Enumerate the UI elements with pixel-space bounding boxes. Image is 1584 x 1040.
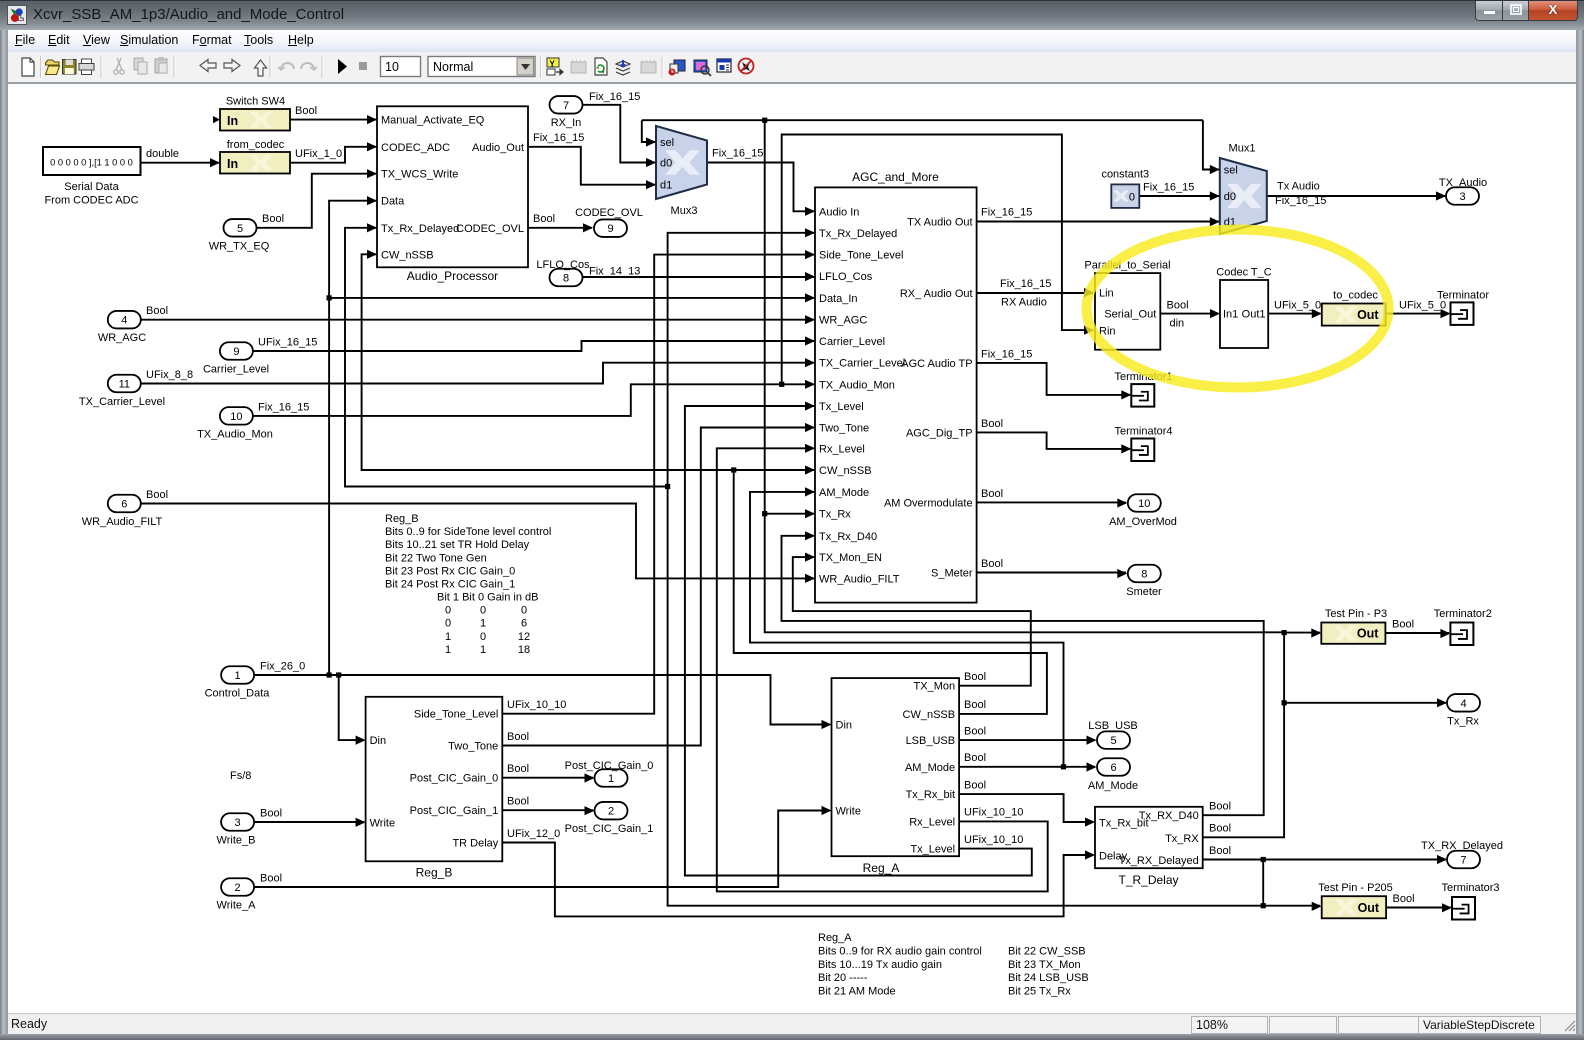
- svg-text:UFix_8_8: UFix_8_8: [146, 369, 193, 381]
- svg-text:Bool: Bool: [260, 808, 282, 820]
- svg-text:Tx_Level: Tx_Level: [910, 844, 955, 856]
- source block Serial Data: [43, 147, 141, 207]
- svg-text:Lin: Lin: [1099, 288, 1114, 300]
- svg-text:Bool: Bool: [964, 780, 986, 792]
- svg-text:Y: Y: [550, 60, 556, 69]
- svg-text:UFix_10_10: UFix_10_10: [964, 807, 1023, 819]
- svg-text:0: 0: [445, 618, 451, 630]
- svg-text:to_codec: to_codec: [1333, 290, 1378, 302]
- wire Mux1 sel drop: [1203, 120, 1219, 169]
- svg-text:TX_WCS_Write: TX_WCS_Write: [381, 169, 458, 181]
- port oval Control_Data 1: [205, 666, 271, 699]
- svg-text:7: 7: [1460, 855, 1466, 867]
- svg-text:2: 2: [608, 806, 614, 818]
- svg-text:sel: sel: [660, 137, 674, 149]
- svg-text:AGC_and_More: AGC_and_More: [852, 170, 939, 184]
- port oval TX_RX_Delayed 7: [1421, 840, 1503, 868]
- svg-text:Bool: Bool: [507, 796, 529, 808]
- svg-text:RX Audio: RX Audio: [1001, 297, 1047, 309]
- wire Side_Tone_Level return: [502, 255, 814, 714]
- svg-text:AM_OverMod: AM_OverMod: [1109, 516, 1177, 528]
- svg-text:Bool: Bool: [981, 558, 1003, 570]
- svg-text:Tx_RX: Tx_RX: [1165, 833, 1199, 845]
- svg-text:Write_B: Write_B: [217, 835, 256, 847]
- svg-text:AM_Mode: AM_Mode: [819, 487, 869, 499]
- wire WR_TX_EQ to TX_WCS_Write: [257, 174, 377, 228]
- svg-text:Bool: Bool: [262, 213, 284, 225]
- wire LFLO_Cos to AGC: [583, 276, 814, 278]
- port oval AM_OverMod 10: [1109, 494, 1177, 528]
- svg-text:Bool: Bool: [964, 752, 986, 764]
- wire Test Pin P3 to Terminator2: [1385, 632, 1449, 634]
- svg-text:Bool: Bool: [1392, 619, 1414, 631]
- svg-text:CW_nSSB: CW_nSSB: [819, 465, 872, 477]
- svg-text:4: 4: [1460, 698, 1466, 710]
- svg-text:TX_Carrier_Level: TX_Carrier_Level: [79, 396, 165, 408]
- constant block constant3: [1101, 169, 1149, 208]
- wire Tx_RX_Delayed riser down: [1262, 860, 1264, 906]
- wire Audio_Out to Mux3 d1: [528, 147, 655, 185]
- svg-text:11: 11: [119, 379, 130, 391]
- svg-text:Serial_Out: Serial_Out: [1104, 309, 1156, 321]
- svg-text:In: In: [227, 157, 238, 171]
- svg-text:Fix_16_15: Fix_16_15: [981, 207, 1032, 219]
- svg-text:Terminator2: Terminator2: [1434, 608, 1492, 620]
- svg-text:Tx_Rx: Tx_Rx: [1447, 716, 1479, 728]
- terminator Terminator: [1437, 290, 1489, 325]
- annotation Reg_B description: [385, 513, 551, 656]
- svg-text:Write: Write: [836, 806, 861, 818]
- port oval WR_TX_EQ 5: [209, 219, 270, 252]
- svg-text:TX_RX_Delayed: TX_RX_Delayed: [1421, 840, 1503, 852]
- port oval TX_Audio 3: [1439, 177, 1487, 205]
- svg-text:1: 1: [608, 773, 614, 785]
- svg-text:1: 1: [445, 644, 451, 656]
- svg-text:Bit 21 AM Mode: Bit 21 AM Mode: [818, 986, 896, 998]
- wire Tx_Rx_bit to T_R_Delay: [959, 794, 1093, 822]
- svg-text:LSB_USB: LSB_USB: [906, 735, 956, 747]
- svg-text:WR_Audio_FILT: WR_Audio_FILT: [819, 573, 900, 585]
- svg-text:RX_ Audio Out: RX_ Audio Out: [900, 288, 973, 300]
- svg-text:d1: d1: [660, 180, 672, 192]
- port oval Smeter 8: [1126, 565, 1162, 598]
- wire Tx_RX_Delayed to Test Pin P205: [1263, 905, 1320, 907]
- wire TX_Carrier_Level to AGC: [141, 363, 815, 384]
- svg-text:Mux1: Mux1: [1229, 143, 1256, 155]
- gateway from_codec In: [220, 139, 290, 174]
- svg-text:Bool: Bool: [507, 763, 529, 775]
- svg-text:Normal: Normal: [433, 60, 473, 74]
- wire Tx_RX_Delayed row left: [668, 233, 1264, 906]
- svg-text:Tx_Level: Tx_Level: [819, 401, 864, 413]
- wire WR_AGC to AGC: [141, 319, 815, 321]
- wire sel row: [642, 119, 1203, 121]
- svg-text:Bit 24 LSB_USB: Bit 24 LSB_USB: [1008, 972, 1089, 984]
- port oval WR_Audio_FILT 6: [82, 495, 163, 528]
- gateway Switch SW4 In: [220, 96, 290, 131]
- svg-text:Test Pin - P3: Test Pin - P3: [1325, 608, 1387, 620]
- svg-text:Data: Data: [381, 196, 405, 208]
- wire Tx_RX_D40 return: [782, 536, 1264, 815]
- svg-text:Tx_Rx_Delayed: Tx_Rx_Delayed: [381, 223, 459, 235]
- wire Mux3 out to AGC Audio In: [707, 163, 814, 212]
- svg-text:Bool: Bool: [1209, 845, 1231, 857]
- svg-text:TX_Audio_Mon: TX_Audio_Mon: [197, 429, 273, 441]
- wire AM_Mode out: [959, 766, 1095, 768]
- wire TX_Mon to AGC TX_Mon_EN: [793, 557, 1031, 686]
- wire Mux1 out to TX_Audio: [1267, 195, 1445, 197]
- wire RX_In to Mux3 d0: [583, 105, 656, 163]
- svg-text:Tx_RX_D40: Tx_RX_D40: [1139, 810, 1199, 822]
- wire Tx_Level return: [685, 406, 1032, 876]
- svg-text:2: 2: [235, 882, 241, 894]
- svg-text:Fs/8: Fs/8: [230, 770, 251, 782]
- svg-text:CW_nSSB: CW_nSSB: [903, 709, 956, 721]
- wire Tx_Rx to oval 4: [1284, 702, 1446, 704]
- svg-text:Bool: Bool: [533, 213, 555, 225]
- svg-text:0 0 0 0 0 ],[1 1 0 0 0: 0 0 0 0 0 ],[1 1 0 0 0: [50, 158, 133, 168]
- wire T_R_Delay Tx_RX to risers: [1203, 633, 1284, 838]
- block Codec T_C: [1220, 280, 1268, 348]
- svg-text:Side_Tone_Level: Side_Tone_Level: [414, 709, 498, 721]
- svg-text:Parallel_to_Serial: Parallel_to_Serial: [1084, 260, 1170, 272]
- wire CW_nSSB row to AGC: [734, 469, 814, 471]
- svg-text:0: 0: [445, 605, 451, 617]
- svg-text:Fix_16_15: Fix_16_15: [981, 348, 1032, 360]
- svg-text:Bool: Bool: [981, 418, 1003, 430]
- mux Mux1: [1220, 143, 1267, 235]
- svg-text:Manual_Activate_EQ: Manual_Activate_EQ: [381, 115, 485, 127]
- svg-text:0: 0: [1129, 192, 1135, 204]
- svg-text:Bool: Bool: [1209, 801, 1231, 813]
- svg-text:Out: Out: [1357, 308, 1379, 322]
- wire SwitchSW4 to Manual_Activate_EQ: [290, 119, 376, 121]
- wire Post_CIC_Gain_1 out: [502, 809, 593, 811]
- wire to_codec to Terminator: [1386, 313, 1449, 315]
- svg-text:Bit 24 Post Rx CIC Gain_1: Bit 24 Post Rx CIC Gain_1: [385, 579, 515, 591]
- svg-text:AM_Mode: AM_Mode: [1088, 780, 1138, 792]
- wire Write_A to Reg_A Write: [255, 811, 830, 888]
- wire Serial_Out to Codec In1: [1160, 313, 1218, 315]
- wire AGC_Dig_TP to Terminator4: [977, 432, 1130, 449]
- svg-text:T_R_Delay: T_R_Delay: [1118, 873, 1178, 887]
- svg-text:TX Audio Out: TX Audio Out: [907, 217, 972, 229]
- svg-text:8: 8: [563, 273, 569, 285]
- svg-text:Tx_Rx: Tx_Rx: [819, 509, 851, 521]
- svg-text:Bit 22 Two Tone Gen: Bit 22 Two Tone Gen: [385, 552, 487, 564]
- svg-text:Tx_Rx_D40: Tx_Rx_D40: [819, 531, 877, 543]
- svg-text:RX_In: RX_In: [551, 117, 582, 129]
- wire CW_nSSB row to AP: [362, 254, 734, 470]
- svg-text:Out: Out: [1357, 627, 1379, 641]
- svg-text:4: 4: [121, 315, 127, 327]
- svg-text:Reg_B: Reg_B: [416, 866, 453, 880]
- svg-text:Fix_16_15: Fix_16_15: [1275, 195, 1326, 207]
- svg-text:1: 1: [235, 670, 241, 682]
- svg-text:Tx_Rx_Delayed: Tx_Rx_Delayed: [819, 228, 897, 240]
- gateway Test Pin - P3 Out: [1321, 608, 1387, 644]
- wire Rx_Level return: [717, 448, 1048, 891]
- svg-text:Fix_16_15: Fix_16_15: [258, 401, 309, 413]
- svg-text:TR Delay: TR Delay: [452, 838, 498, 850]
- wire Codec Out1 to to_codec: [1268, 313, 1320, 315]
- block Parallel_to_Serial: [1095, 273, 1160, 350]
- svg-text:TX_Mon: TX_Mon: [914, 681, 956, 693]
- port oval Write_A 2: [217, 878, 257, 911]
- svg-text:Audio_Out: Audio_Out: [472, 142, 524, 154]
- svg-text:Tx_Rx_bit: Tx_Rx_bit: [906, 789, 956, 801]
- svg-text:9: 9: [607, 223, 613, 235]
- gateway Test Pin - P205 Out: [1318, 882, 1393, 918]
- wire AGC Audio TP to Terminator1: [977, 363, 1130, 395]
- svg-text:From CODEC ADC: From CODEC ADC: [44, 195, 138, 207]
- svg-text:6: 6: [1110, 762, 1116, 774]
- svg-text:Bool: Bool: [146, 489, 168, 501]
- wire TR Delay to Delay input: [502, 843, 1093, 917]
- wire from_codec to CODEC_ADC: [290, 147, 376, 163]
- svg-text:AGC_Dig_TP: AGC_Dig_TP: [906, 427, 973, 439]
- port oval Post_CIC_Gain_0 1: [565, 760, 654, 787]
- svg-text:Fix_16_15: Fix_16_15: [1000, 278, 1051, 290]
- svg-text:Fix_16_15: Fix_16_15: [712, 148, 763, 160]
- wire RX Audio Out to Lin: [977, 292, 1093, 294]
- svg-text:5: 5: [237, 223, 243, 235]
- svg-text:Bits 10..21 set TR Hold Delay: Bits 10..21 set TR Hold Delay: [385, 539, 530, 551]
- svg-text:9: 9: [233, 346, 239, 358]
- wire Test Pin P205 to Terminator3: [1386, 907, 1450, 909]
- svg-text:Reg_A: Reg_A: [863, 861, 900, 875]
- port oval RX_In 7: [550, 96, 583, 129]
- wire Two_Tone return: [502, 428, 814, 746]
- wire Write_B to Reg_B Write: [255, 821, 364, 823]
- svg-text:AM_Mode: AM_Mode: [905, 762, 955, 774]
- port oval LSB_USB 5: [1088, 720, 1138, 749]
- port oval TX_Carrier_Level 11: [79, 375, 165, 408]
- svg-text:sel: sel: [1224, 165, 1238, 177]
- svg-text:Write: Write: [370, 817, 395, 829]
- svg-text:Post_CIC_Gain_0: Post_CIC_Gain_0: [565, 760, 654, 772]
- svg-text:1: 1: [480, 644, 486, 656]
- wire S_Meter to Smeter: [977, 572, 1126, 574]
- svg-text:from_codec: from_codec: [227, 139, 285, 151]
- svg-text:0: 0: [480, 605, 486, 617]
- svg-text:d0: d0: [660, 158, 672, 170]
- svg-text:10: 10: [385, 60, 399, 74]
- svg-text:Bool: Bool: [964, 699, 986, 711]
- svg-text:Bool: Bool: [1209, 823, 1231, 835]
- mux Mux3: [656, 126, 707, 217]
- svg-text:TX_Audio_Mon: TX_Audio_Mon: [819, 379, 895, 391]
- wire CODEC_OVL to CODEC_OVL port: [528, 227, 592, 229]
- block T_R_Delay: [1095, 807, 1203, 887]
- wire TX_Audio_Mon riser to Rin: [782, 135, 1093, 385]
- gateway to_codec Out: [1322, 290, 1386, 326]
- svg-text:UFix_10_10: UFix_10_10: [507, 699, 566, 711]
- svg-text:LFLO_Cos: LFLO_Cos: [819, 271, 873, 283]
- svg-text:Carrier_Level: Carrier_Level: [203, 364, 269, 376]
- svg-text:CODEC_ADC: CODEC_ADC: [381, 142, 450, 154]
- svg-text:Tx_RX_Delayed: Tx_RX_Delayed: [1119, 855, 1199, 867]
- svg-text:Post_CIC_Gain_1: Post_CIC_Gain_1: [565, 823, 654, 835]
- svg-text:In1: In1: [1223, 309, 1238, 321]
- port oval Tx_Rx 4: [1447, 694, 1480, 727]
- svg-text:UFix_5_0: UFix_5_0: [1274, 300, 1321, 312]
- svg-text:WR_AGC: WR_AGC: [819, 315, 867, 327]
- port oval AM_Mode 6: [1088, 758, 1138, 792]
- svg-text:Serial Data: Serial Data: [64, 181, 119, 193]
- svg-text:Bool: Bool: [964, 671, 986, 683]
- terminator Terminator1: [1114, 371, 1172, 407]
- svg-text:Control_Data: Control_Data: [205, 688, 271, 700]
- svg-text:Bool: Bool: [260, 873, 282, 885]
- port oval CODEC_OVL 9: [575, 207, 643, 237]
- wire AM Overmodulate to AM_OverMod: [977, 501, 1126, 503]
- svg-text:UFix_5_0: UFix_5_0: [1399, 300, 1446, 312]
- svg-text:5: 5: [1110, 735, 1116, 747]
- port oval Post_CIC_Gain_1 2: [565, 802, 654, 835]
- block Audio_Processor: [377, 106, 528, 283]
- port oval WR_AGC 4: [98, 311, 146, 344]
- svg-text:AM Overmodulate: AM Overmodulate: [884, 497, 973, 509]
- svg-text:Bit 22 CW_SSB: Bit 22 CW_SSB: [1008, 945, 1086, 957]
- svg-text:Post_CIC_Gain_0: Post_CIC_Gain_0: [410, 773, 499, 785]
- svg-text:WR_AGC: WR_AGC: [98, 332, 146, 344]
- svg-text:double: double: [146, 148, 179, 160]
- wire Control_Data to Reg_B Din: [339, 675, 364, 740]
- svg-text:0: 0: [521, 605, 527, 617]
- port oval Carrier_Level 9: [203, 342, 269, 375]
- svg-text:UFix_16_15: UFix_16_15: [258, 337, 317, 349]
- terminator Terminator2: [1434, 608, 1492, 645]
- svg-text:0: 0: [480, 631, 486, 643]
- wire CW_nSSB distribution: [734, 470, 1047, 714]
- svg-text:Smeter: Smeter: [1126, 586, 1162, 598]
- svg-text:7: 7: [563, 100, 569, 112]
- svg-text:CODEC_OVL: CODEC_OVL: [575, 207, 643, 219]
- svg-text:Data_In: Data_In: [819, 293, 858, 305]
- wire Tx_RX riser to Test Pin P3: [1284, 632, 1320, 634]
- port oval LFLO_Cos 8: [536, 259, 590, 286]
- svg-text:Tx Audio: Tx Audio: [1277, 181, 1320, 193]
- wire constant3 to Mux1 d0: [1139, 195, 1218, 197]
- annotation Reg_A description: [818, 932, 1089, 998]
- highlight ellipse: [1087, 230, 1389, 388]
- svg-text:Switch SW4: Switch SW4: [226, 96, 285, 108]
- svg-text:Bool: Bool: [507, 731, 529, 743]
- svg-text:Out: Out: [1358, 901, 1380, 915]
- svg-text:Codec T_C: Codec T_C: [1216, 266, 1271, 278]
- svg-text:Rx_Level: Rx_Level: [819, 443, 865, 455]
- svg-text:In: In: [227, 114, 238, 128]
- wire Control_Data to AP Data: [329, 201, 376, 675]
- wire Mux3 sel drop: [642, 120, 655, 142]
- svg-text:Fix_16_15: Fix_16_15: [533, 132, 584, 144]
- wire Tx_Rx_Delayed branch to AP: [345, 228, 668, 487]
- svg-text:Fix_16_15: Fix_16_15: [1143, 182, 1194, 194]
- wire AGC TX Audio Out to Mux1 d1: [977, 221, 1219, 223]
- svg-text:Side_Tone_Level: Side_Tone_Level: [819, 250, 903, 262]
- wire Tx_RX row to vertical A: [765, 120, 1284, 632]
- svg-text:WR_TX_EQ: WR_TX_EQ: [209, 241, 270, 253]
- svg-text:Bit 23 Post Rx CIC Gain_0: Bit 23 Post Rx CIC Gain_0: [385, 565, 515, 577]
- wire LSB_USB out: [959, 739, 1095, 741]
- block AGC_and_More: [815, 170, 977, 603]
- svg-text:6: 6: [121, 499, 127, 511]
- svg-text:Audio In: Audio In: [819, 206, 859, 218]
- svg-text:CW_nSSB: CW_nSSB: [381, 249, 434, 261]
- wire Control_Data to AGC Data_In: [329, 297, 814, 299]
- svg-text:10: 10: [230, 411, 242, 423]
- terminator Terminator4: [1114, 426, 1172, 462]
- svg-text:Write_A: Write_A: [217, 900, 257, 912]
- svg-text:Audio_Processor: Audio_Processor: [407, 269, 498, 283]
- wire Carrier_Level to AGC: [253, 341, 814, 351]
- svg-text:Out1: Out1: [1242, 309, 1266, 321]
- svg-text:Test Pin - P205: Test Pin - P205: [1318, 882, 1393, 894]
- svg-text:Reg_A: Reg_A: [818, 932, 852, 944]
- wire AM_Mode riser to AGC: [750, 492, 1064, 767]
- svg-text:Bool: Bool: [295, 105, 317, 117]
- svg-text:constant3: constant3: [1101, 169, 1149, 181]
- svg-text:UFix_1_0: UFix_1_0: [295, 148, 342, 160]
- svg-text:Mux3: Mux3: [671, 205, 698, 217]
- svg-text:18: 18: [518, 644, 530, 656]
- svg-text:1: 1: [445, 631, 451, 643]
- svg-text:Post_CIC_Gain_1: Post_CIC_Gain_1: [410, 805, 499, 817]
- wire Tx_Rx into AGC: [765, 513, 814, 515]
- svg-text:d0: d0: [1224, 191, 1236, 203]
- svg-text:Bool: Bool: [1167, 300, 1189, 312]
- svg-text:LFLO_Cos: LFLO_Cos: [536, 259, 590, 271]
- svg-text:Bit 25 Tx_Rx: Bit 25 Tx_Rx: [1008, 986, 1071, 998]
- svg-text:3: 3: [1459, 191, 1465, 203]
- svg-text:Bool: Bool: [146, 305, 168, 317]
- arrows and junction dots: [146, 91, 1452, 912]
- wire Control_Data trunk: [255, 675, 830, 725]
- svg-text:WR_Audio_FILT: WR_Audio_FILT: [82, 516, 163, 528]
- svg-text:Fix_16_15: Fix_16_15: [589, 91, 640, 103]
- svg-text:Bit 23 TX_Mon: Bit 23 TX_Mon: [1008, 959, 1081, 971]
- wire WR_Audio_FILT to AGC: [141, 504, 815, 579]
- svg-text:Fix_14_13: Fix_14_13: [589, 266, 640, 278]
- svg-text:Reg_B: Reg_B: [385, 513, 419, 525]
- svg-text:8: 8: [1141, 569, 1147, 581]
- svg-text:Terminator3: Terminator3: [1441, 882, 1499, 894]
- svg-text:UFix_10_10: UFix_10_10: [964, 834, 1023, 846]
- svg-text:TX_Carrier_Level: TX_Carrier_Level: [819, 358, 905, 370]
- svg-text:Bits 0..9 for SideTone level c: Bits 0..9 for SideTone level control: [385, 526, 551, 538]
- svg-text:Two_Tone: Two_Tone: [448, 741, 498, 753]
- svg-text:Bool: Bool: [981, 488, 1003, 500]
- wire TX_Audio_Mon to AGC: [253, 384, 814, 416]
- svg-text:din: din: [1170, 318, 1185, 330]
- svg-text:6: 6: [521, 618, 527, 630]
- port oval Write_B 3: [217, 813, 256, 846]
- svg-text:10: 10: [1138, 498, 1150, 510]
- svg-text:Two_Tone: Two_Tone: [819, 423, 869, 435]
- svg-text:AGC Audio TP: AGC Audio TP: [901, 358, 972, 370]
- wire Tx_RX_Delayed to oval 7: [1203, 859, 1446, 861]
- svg-text:Bit 20 -----: Bit 20 -----: [818, 972, 868, 984]
- svg-text:Fix_26_0: Fix_26_0: [260, 661, 305, 673]
- svg-text:12: 12: [518, 631, 530, 643]
- svg-text:Bool: Bool: [964, 726, 986, 738]
- svg-text:Rx_Level: Rx_Level: [909, 816, 955, 828]
- block Reg_B: [366, 697, 503, 880]
- wire SerialData to from_codec: [141, 162, 220, 164]
- svg-text:Din: Din: [370, 735, 387, 747]
- svg-text:TX_Mon_EN: TX_Mon_EN: [819, 552, 882, 564]
